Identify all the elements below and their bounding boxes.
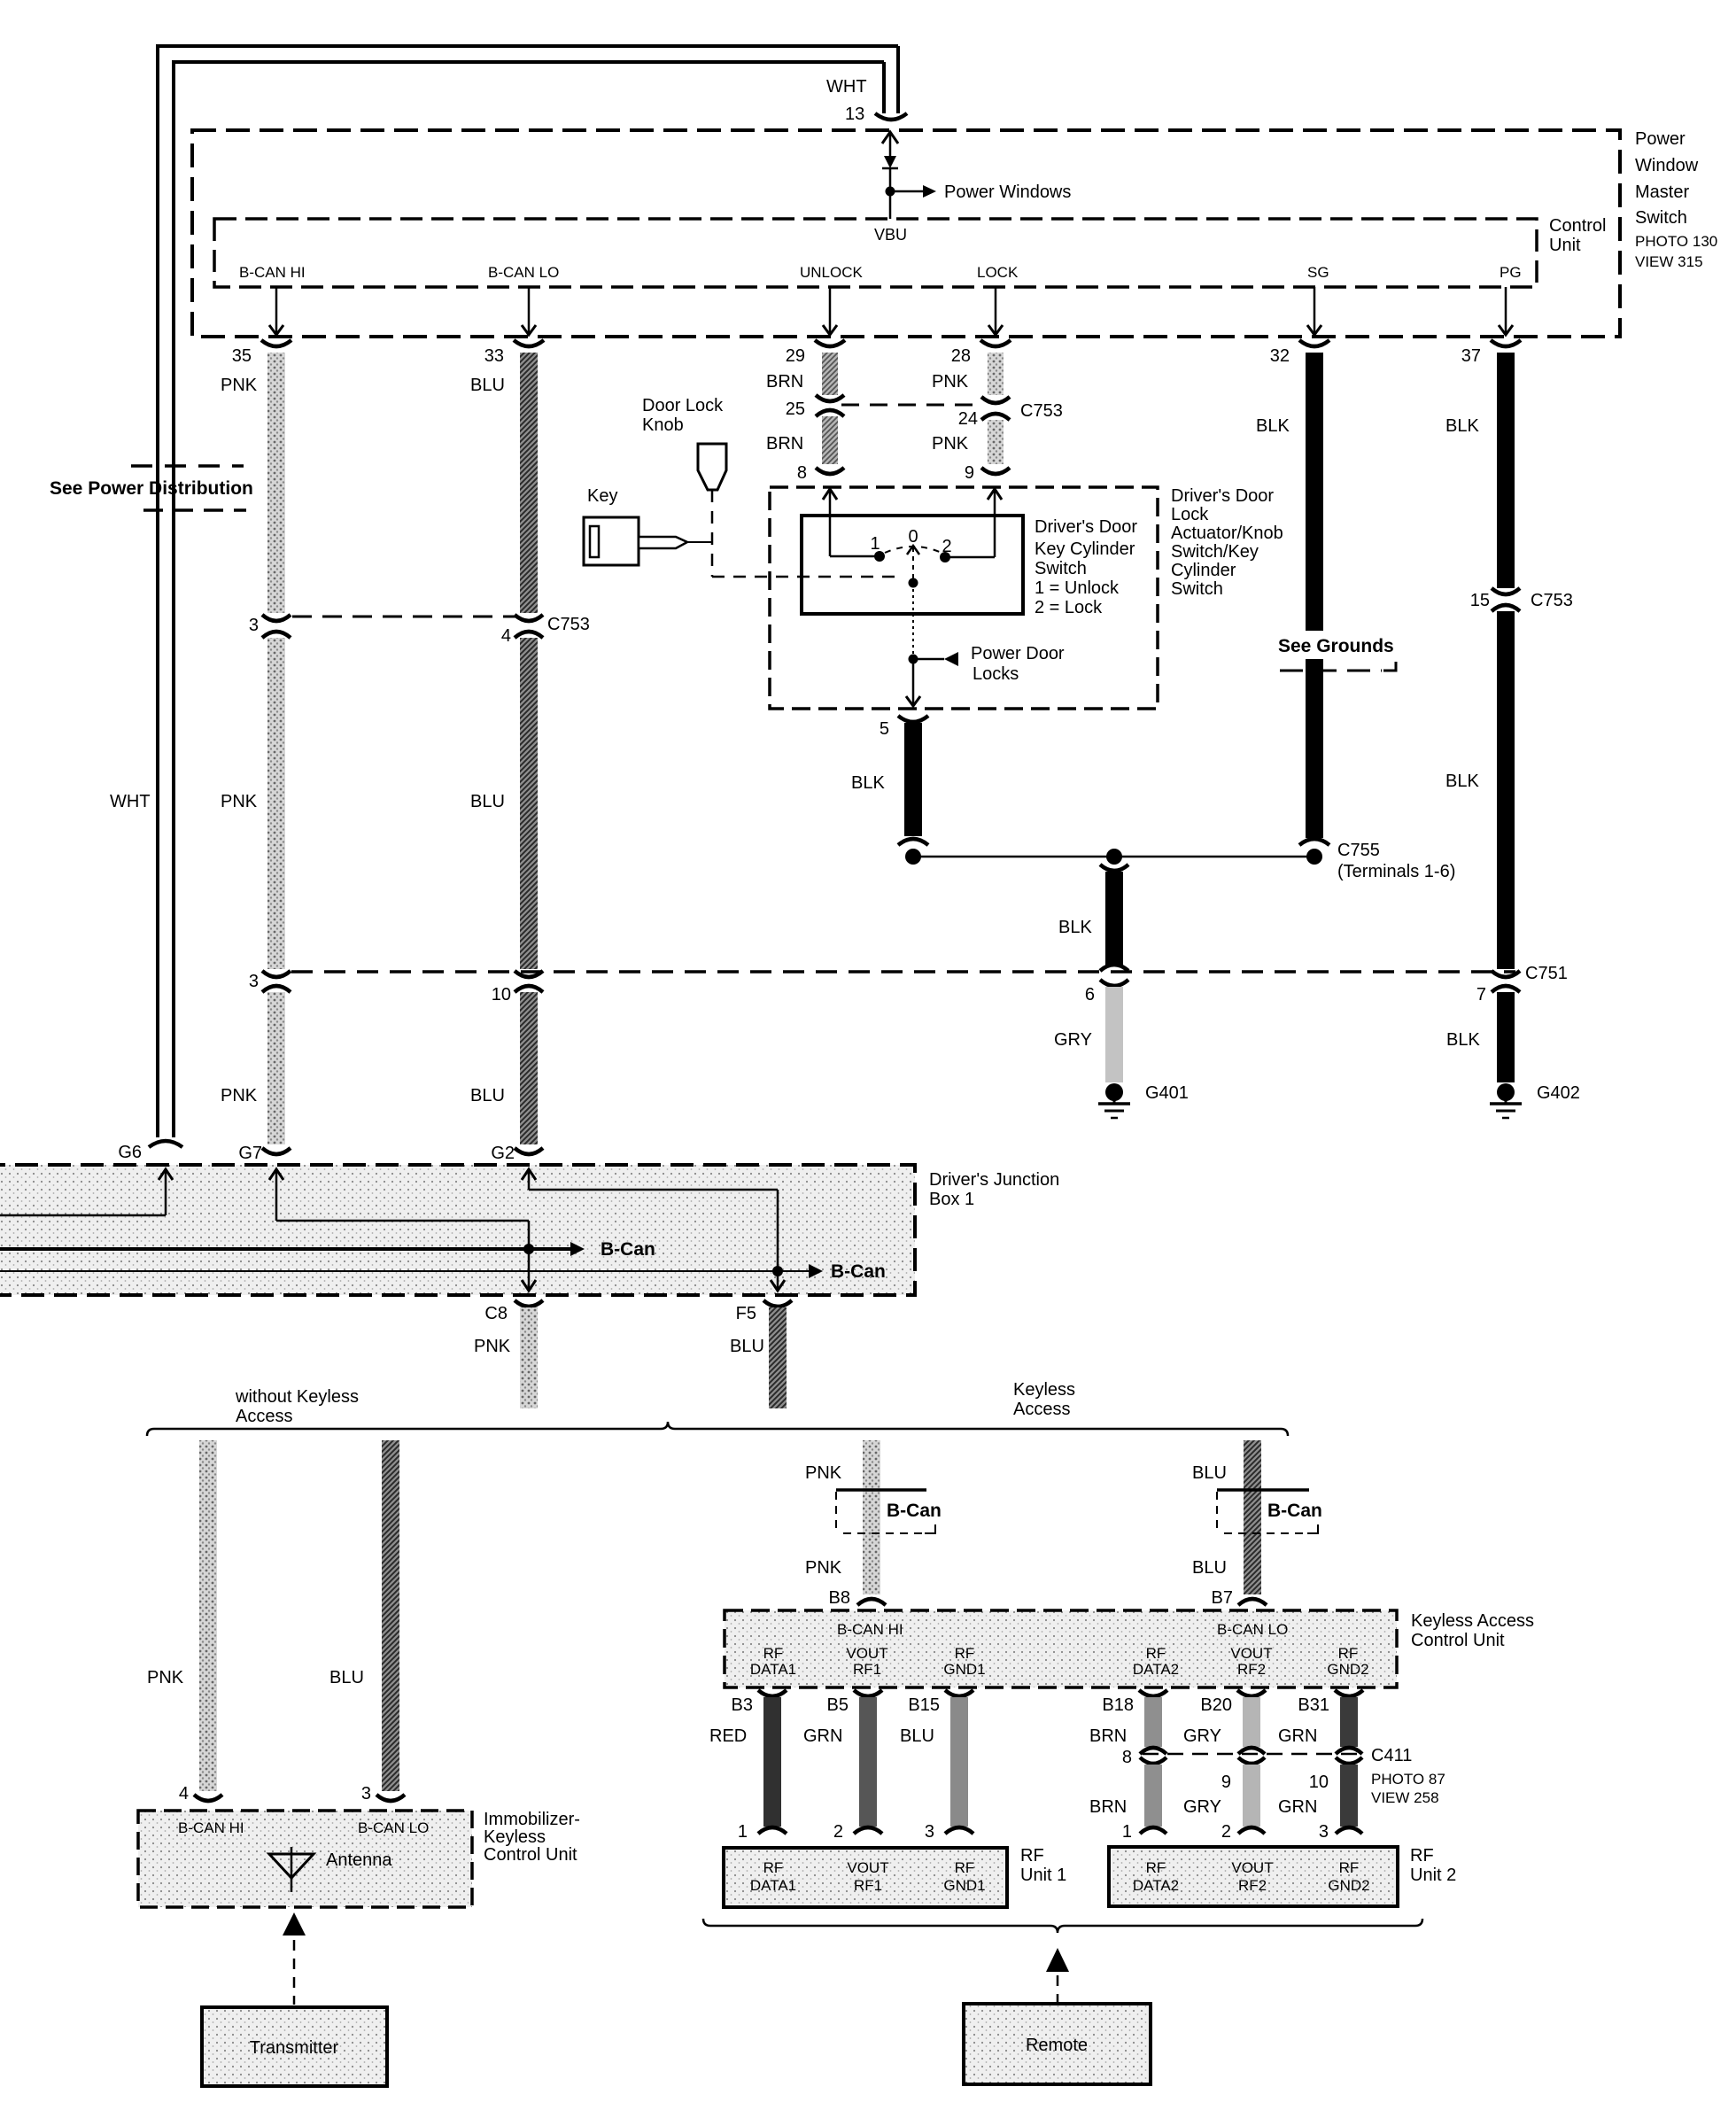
svg-text:Access: Access bbox=[1013, 1400, 1070, 1419]
svg-text:PNK: PNK bbox=[221, 1086, 258, 1105]
svg-text:C753: C753 bbox=[1020, 401, 1063, 421]
connector bracket pin 13 bbox=[875, 113, 907, 120]
svg-text:SG: SG bbox=[1307, 264, 1329, 281]
wire BLU F5 stub bbox=[769, 1307, 787, 1408]
svg-text:DATA2: DATA2 bbox=[1133, 1661, 1179, 1678]
svg-text:PNK: PNK bbox=[805, 1463, 842, 1483]
svg-text:PNK: PNK bbox=[932, 434, 969, 454]
pin B8 bbox=[829, 1588, 886, 1608]
B-Can marker on BLU bbox=[1217, 1490, 1318, 1533]
wire BLU B15 to RF unit 1 pin 3 bbox=[945, 1697, 973, 1834]
See Power Distribution page-break dashes on WHT wire bbox=[131, 466, 246, 510]
svg-text:G402: G402 bbox=[1537, 1083, 1580, 1103]
svg-text:B-CAN HI: B-CAN HI bbox=[239, 264, 306, 281]
svg-text:RF1: RF1 bbox=[853, 1661, 881, 1678]
junction dot C755 left bbox=[905, 849, 921, 865]
pin B15 bbox=[908, 1690, 973, 1715]
svg-text:RF: RF bbox=[1339, 1859, 1360, 1876]
svg-text:2: 2 bbox=[1221, 1822, 1231, 1842]
svg-text:Unit: Unit bbox=[1549, 236, 1581, 255]
svg-text:GRY: GRY bbox=[1183, 1797, 1221, 1817]
box RF Unit 1 bbox=[724, 1848, 1007, 1907]
svg-text:without Keyless: without Keyless bbox=[235, 1387, 359, 1407]
junction dot power door locks branch bbox=[909, 655, 918, 664]
svg-text:PHOTO 87: PHOTO 87 bbox=[1371, 1771, 1445, 1788]
svg-text:BLK: BLK bbox=[851, 773, 885, 793]
svg-text:9: 9 bbox=[965, 463, 974, 483]
svg-text:Antenna: Antenna bbox=[326, 1850, 392, 1870]
svg-text:Driver's Door: Driver's Door bbox=[1171, 486, 1274, 506]
wire GRN B5 to RF unit 1 pin 2 bbox=[854, 1697, 882, 1834]
pin B5 bbox=[827, 1690, 882, 1715]
wire BLU mid segment bbox=[520, 638, 538, 969]
svg-text:C753: C753 bbox=[1531, 591, 1573, 610]
ground G401 bbox=[1098, 1083, 1130, 1118]
svg-text:VOUT: VOUT bbox=[1230, 1645, 1272, 1662]
svg-text:VIEW 315: VIEW 315 bbox=[1635, 253, 1703, 270]
label RF Unit 2 bbox=[1410, 1846, 1456, 1885]
svg-text:B-CAN LO: B-CAN LO bbox=[488, 264, 559, 281]
svg-text:3: 3 bbox=[925, 1822, 934, 1842]
svg-text:VOUT: VOUT bbox=[1231, 1859, 1273, 1876]
wire PNK to immobilizer pin 4 bbox=[199, 1440, 217, 1791]
wire G6 internal path bbox=[0, 1169, 173, 1215]
svg-text:Door Lock: Door Lock bbox=[642, 396, 724, 415]
svg-text:1 = Unlock: 1 = Unlock bbox=[1035, 578, 1120, 598]
connector C753 pins 25/24 dashed line bbox=[841, 404, 983, 407]
box RF Unit 2 bbox=[1109, 1847, 1398, 1906]
svg-text:GND1: GND1 bbox=[943, 1661, 985, 1678]
svg-text:BLK: BLK bbox=[1058, 918, 1092, 937]
svg-text:Driver's Door: Driver's Door bbox=[1035, 517, 1137, 537]
svg-text:Knob: Knob bbox=[642, 415, 684, 435]
pin 8 bbox=[797, 463, 844, 483]
svg-text:G7: G7 bbox=[238, 1144, 262, 1163]
label C755 (Terminals 1-6) bbox=[1337, 841, 1455, 881]
svg-text:Keyless: Keyless bbox=[1013, 1380, 1075, 1400]
pin G6 bbox=[118, 1141, 182, 1162]
wire G2 internal path to F5 bbox=[522, 1169, 785, 1291]
section brace bbox=[147, 1422, 1288, 1436]
svg-text:G401: G401 bbox=[1145, 1083, 1189, 1103]
wire BLU lower segment bbox=[520, 992, 538, 1144]
pin F5 bbox=[736, 1300, 792, 1323]
svg-text:GRN: GRN bbox=[803, 1726, 842, 1746]
svg-text:UNLOCK: UNLOCK bbox=[800, 264, 864, 281]
svg-text:0: 0 bbox=[908, 527, 918, 547]
pin 10 connector C751 on BLU bbox=[492, 971, 543, 1005]
svg-text:RF: RF bbox=[955, 1645, 975, 1662]
wire BLK pin7 to G402 bbox=[1497, 992, 1515, 1082]
wire arm to pin 5 bbox=[906, 659, 920, 706]
svg-text:Power Windows: Power Windows bbox=[944, 182, 1071, 202]
svg-text:1: 1 bbox=[738, 1822, 748, 1842]
svg-text:Control: Control bbox=[1549, 216, 1606, 236]
svg-text:8: 8 bbox=[797, 463, 807, 483]
connector bracket BLK pin5 bottom bbox=[898, 839, 928, 845]
svg-text:Unit 2: Unit 2 bbox=[1410, 1866, 1456, 1885]
label Keyless Access bbox=[1013, 1380, 1075, 1419]
wire B-Can bus (thin) bbox=[0, 1264, 823, 1278]
transmitter signal arrow bbox=[283, 1912, 306, 2005]
svg-text:B3: B3 bbox=[732, 1695, 753, 1715]
svg-text:C751: C751 bbox=[1525, 964, 1568, 983]
svg-text:DATA1: DATA1 bbox=[750, 1877, 796, 1894]
svg-text:Remote: Remote bbox=[1026, 2036, 1088, 2055]
svg-text:Master: Master bbox=[1635, 182, 1689, 202]
switch arm pointer bbox=[907, 546, 919, 579]
svg-text:Unit 1: Unit 1 bbox=[1020, 1866, 1066, 1885]
svg-text:Lock: Lock bbox=[1171, 505, 1209, 524]
svg-text:GRY: GRY bbox=[1054, 1030, 1092, 1050]
svg-text:C8: C8 bbox=[484, 1304, 508, 1323]
wire BRN B18 upper bbox=[1140, 1697, 1166, 1754]
svg-text:RF2: RF2 bbox=[1238, 1877, 1267, 1894]
svg-text:Locks: Locks bbox=[973, 664, 1019, 684]
wire pin9 to contact 2 bbox=[945, 489, 1002, 557]
svg-text:RF: RF bbox=[955, 1859, 975, 1876]
pin B20 bbox=[1200, 1690, 1266, 1715]
svg-text:B-Can: B-Can bbox=[601, 1239, 655, 1260]
wire G7 internal path to C8 bbox=[269, 1169, 536, 1291]
svg-text:3: 3 bbox=[1319, 1822, 1329, 1842]
net VBU: arrow chain from pin 13 to control unit bbox=[882, 132, 898, 219]
door lock knob symbol bbox=[698, 444, 726, 490]
svg-text:F5: F5 bbox=[736, 1304, 756, 1323]
svg-text:2 = Lock: 2 = Lock bbox=[1035, 598, 1103, 617]
svg-text:Access: Access bbox=[236, 1407, 292, 1426]
svg-text:VOUT: VOUT bbox=[846, 1645, 887, 1662]
svg-text:Power: Power bbox=[1635, 129, 1686, 149]
connector C751 dashed line bbox=[291, 970, 1515, 974]
pin 32 bbox=[1270, 340, 1329, 366]
svg-text:RF1: RF1 bbox=[854, 1877, 882, 1894]
pin 3 connector C751 on PNK bbox=[249, 971, 291, 992]
remote signal arrow bbox=[1046, 1948, 1069, 2002]
wire BLK PG mid segment bbox=[1497, 611, 1515, 969]
junction dot arm pivot bbox=[909, 578, 918, 588]
wire BRN pin25-8 segment bbox=[822, 416, 838, 464]
svg-text:B20: B20 bbox=[1200, 1695, 1232, 1715]
pin 35 bbox=[232, 340, 291, 366]
label Immobilizer-Keyless Control Unit bbox=[484, 1810, 580, 1865]
pin B31 bbox=[1298, 1690, 1363, 1715]
pin 25 bbox=[786, 395, 844, 419]
junction dot VBU / Power Windows branch bbox=[886, 187, 895, 197]
junction dot B-Can / C8 bbox=[523, 1244, 534, 1254]
wire PNK pin35 upper segment bbox=[267, 353, 285, 613]
svg-text:Driver's Junction: Driver's Junction bbox=[929, 1170, 1059, 1190]
svg-text:BLU: BLU bbox=[1192, 1463, 1227, 1483]
svg-text:BLU: BLU bbox=[470, 792, 505, 811]
pin 15 connector C753 bbox=[1470, 588, 1520, 611]
svg-text:BLU: BLU bbox=[470, 376, 505, 395]
svg-text:BLU: BLU bbox=[1192, 1558, 1227, 1578]
wire pin8 to contact 1 bbox=[823, 489, 880, 556]
svg-text:9: 9 bbox=[1221, 1773, 1231, 1792]
svg-text:4: 4 bbox=[501, 626, 511, 646]
pin 3 bbox=[361, 1784, 405, 1804]
connector bracket SG bottom bbox=[1299, 839, 1329, 845]
svg-text:DATA1: DATA1 bbox=[750, 1661, 796, 1678]
connector C411 dashed line bbox=[1143, 1753, 1364, 1756]
svg-text:B-CAN LO: B-CAN LO bbox=[1217, 1621, 1288, 1638]
svg-text:25: 25 bbox=[786, 400, 805, 419]
wire PG pin arrow bbox=[1499, 287, 1513, 335]
svg-text:VIEW 258: VIEW 258 bbox=[1371, 1789, 1439, 1806]
wire RED B3 to RF unit 1 pin 1 bbox=[758, 1697, 787, 1834]
svg-text:BLK: BLK bbox=[1445, 416, 1479, 436]
svg-text:WHT: WHT bbox=[826, 77, 867, 97]
keyless unit lower pin names bbox=[750, 1645, 1369, 1678]
control unit pin names bbox=[239, 264, 1522, 281]
svg-text:Keyless Access: Keyless Access bbox=[1411, 1611, 1534, 1631]
svg-text:Key Cylinder: Key Cylinder bbox=[1035, 539, 1135, 559]
svg-text:BLU: BLU bbox=[470, 1086, 505, 1105]
pin 28 bbox=[951, 340, 1011, 366]
box Control Unit (inner dashed) bbox=[214, 219, 1537, 287]
svg-text:Actuator/Knob: Actuator/Knob bbox=[1171, 524, 1283, 543]
svg-text:B5: B5 bbox=[827, 1695, 849, 1715]
svg-text:13: 13 bbox=[845, 105, 864, 124]
svg-text:BLK: BLK bbox=[1445, 772, 1479, 791]
wire BLK pin37 PG upper segment bbox=[1497, 353, 1515, 588]
pin 4 bbox=[179, 1784, 222, 1804]
svg-text:3: 3 bbox=[249, 972, 259, 991]
svg-text:37: 37 bbox=[1461, 346, 1481, 366]
label See Grounds bbox=[1274, 631, 1403, 659]
svg-text:RF2: RF2 bbox=[1237, 1661, 1266, 1678]
wire PNK pin28 segment bbox=[988, 353, 1004, 395]
svg-text:33: 33 bbox=[484, 346, 504, 366]
wire PNK mid segment bbox=[267, 638, 285, 969]
key symbol bbox=[584, 517, 712, 565]
wire BRN pin29 segment bbox=[822, 353, 838, 395]
svg-text:8: 8 bbox=[1122, 1748, 1132, 1767]
svg-text:G2: G2 bbox=[491, 1144, 515, 1163]
svg-text:BRN: BRN bbox=[1089, 1797, 1127, 1817]
pin 9 bbox=[965, 463, 1010, 483]
svg-text:VOUT: VOUT bbox=[847, 1859, 888, 1876]
svg-text:WHT: WHT bbox=[110, 792, 151, 811]
svg-text:GND2: GND2 bbox=[1327, 1661, 1368, 1678]
wire BRN B18 lower to RF unit 2 pin 1 bbox=[1140, 1757, 1166, 1834]
junction dot C755 right bbox=[1306, 849, 1322, 865]
box Immobilizer-Keyless Control Unit (dashed) bbox=[138, 1811, 472, 1907]
label Driver's Lock Actuator/Knob Switch/Key Cylinder Switch bbox=[1171, 486, 1283, 599]
box Keyless Access Control Unit (dashed) bbox=[725, 1610, 1397, 1687]
pin G7 bbox=[238, 1144, 291, 1163]
keyless group underbrace bbox=[703, 1919, 1422, 1933]
pin 4 connector C753 on BLU bbox=[501, 615, 543, 646]
svg-text:1: 1 bbox=[1122, 1822, 1132, 1842]
svg-text:See Grounds: See Grounds bbox=[1278, 636, 1394, 656]
svg-text:B-CAN HI: B-CAN HI bbox=[837, 1621, 903, 1638]
svg-text:4: 4 bbox=[179, 1784, 189, 1804]
svg-text:B-Can: B-Can bbox=[831, 1261, 886, 1282]
svg-text:B15: B15 bbox=[908, 1695, 940, 1715]
svg-text:2: 2 bbox=[833, 1822, 843, 1842]
svg-text:BRN: BRN bbox=[766, 434, 803, 454]
svg-text:RED: RED bbox=[709, 1726, 747, 1746]
junction dot B-Can / F5 bbox=[772, 1266, 783, 1276]
wire GRN B31 upper bbox=[1336, 1697, 1362, 1754]
svg-text:1: 1 bbox=[870, 534, 880, 554]
wire GRY pin6 to G401 bbox=[1105, 987, 1123, 1082]
svg-text:GRN: GRN bbox=[1278, 1797, 1317, 1817]
wire GRY B20 upper bbox=[1238, 1697, 1265, 1754]
svg-text:BLK: BLK bbox=[1256, 416, 1290, 436]
svg-text:Immobilizer-: Immobilizer- bbox=[484, 1810, 580, 1829]
svg-text:Cylinder: Cylinder bbox=[1171, 561, 1236, 580]
label Door Lock Knob bbox=[642, 396, 724, 435]
svg-text:Switch/Key: Switch/Key bbox=[1171, 542, 1259, 562]
junction dot C755 mid bbox=[1106, 849, 1122, 865]
svg-text:32: 32 bbox=[1270, 346, 1290, 366]
svg-text:10: 10 bbox=[492, 985, 511, 1005]
svg-text:BLU: BLU bbox=[329, 1668, 364, 1687]
svg-text:PNK: PNK bbox=[805, 1558, 842, 1578]
svg-text:PNK: PNK bbox=[474, 1337, 511, 1356]
box Power Window Master Switch (outer dashed) bbox=[192, 130, 1620, 337]
svg-text:BLU: BLU bbox=[730, 1337, 764, 1356]
RF unit 2 pin names bbox=[1133, 1859, 1370, 1894]
wire PNK pin24-9 segment bbox=[988, 420, 1004, 464]
label Driver's Junction Box 1 bbox=[929, 1170, 1059, 1209]
B-Can marker on PNK bbox=[836, 1490, 935, 1533]
wire SG pin arrow bbox=[1307, 287, 1321, 335]
svg-text:24: 24 bbox=[958, 409, 978, 429]
antenna symbol bbox=[269, 1847, 314, 1892]
label Power Door Locks bbox=[971, 644, 1065, 684]
wire B-CAN LO pin arrow bbox=[522, 287, 536, 335]
wire PNK lower segment bbox=[267, 992, 285, 1144]
wire C755 bus line bbox=[913, 856, 1314, 858]
svg-text:RF: RF bbox=[763, 1645, 784, 1662]
svg-text:B-Can: B-Can bbox=[1267, 1501, 1322, 1521]
wire BLK pin32 SG segment bbox=[1306, 353, 1323, 838]
wire GRY B20 lower to RF unit 2 pin 2 bbox=[1238, 1757, 1265, 1834]
label Control Unit bbox=[1549, 216, 1606, 255]
svg-text:VBU: VBU bbox=[874, 226, 907, 244]
wire PNK C8 stub bbox=[520, 1307, 538, 1408]
connector C753 pins 3/4 dashed line bbox=[292, 616, 517, 618]
svg-text:(Terminals 1-6): (Terminals 1-6) bbox=[1337, 862, 1455, 881]
svg-text:3: 3 bbox=[249, 616, 259, 635]
svg-text:35: 35 bbox=[232, 346, 252, 366]
svg-text:RF: RF bbox=[763, 1859, 784, 1876]
svg-text:Transmitter: Transmitter bbox=[250, 2038, 339, 2058]
label Keyless Access Control Unit bbox=[1411, 1611, 1534, 1650]
svg-text:Window: Window bbox=[1635, 156, 1699, 175]
svg-text:BLU: BLU bbox=[900, 1726, 934, 1746]
svg-text:PHOTO 130: PHOTO 130 bbox=[1635, 233, 1717, 250]
svg-text:B18: B18 bbox=[1102, 1695, 1134, 1715]
pin C8 bbox=[484, 1300, 543, 1323]
svg-text:DATA2: DATA2 bbox=[1133, 1877, 1179, 1894]
pin 29 bbox=[786, 340, 845, 366]
svg-text:RF: RF bbox=[1338, 1645, 1359, 1662]
label Driver's Door Key Cylinder Switch legend bbox=[1035, 517, 1137, 617]
pin 33 bbox=[484, 340, 544, 366]
svg-text:Control Unit: Control Unit bbox=[484, 1845, 577, 1865]
svg-text:C411: C411 bbox=[1371, 1746, 1412, 1765]
box Driver's Junction Box 1 (dashed) bbox=[0, 1165, 915, 1295]
svg-text:28: 28 bbox=[951, 346, 971, 366]
svg-text:C755: C755 bbox=[1337, 841, 1380, 860]
See Grounds page-break dashes bbox=[1280, 662, 1396, 671]
wire branch to Power Door Locks bbox=[913, 652, 958, 666]
svg-text:GRY: GRY bbox=[1183, 1726, 1221, 1746]
svg-text:B-CAN HI: B-CAN HI bbox=[178, 1819, 244, 1836]
svg-text:PNK: PNK bbox=[147, 1668, 184, 1687]
svg-text:PNK: PNK bbox=[221, 792, 258, 811]
svg-text:B31: B31 bbox=[1298, 1695, 1329, 1715]
pin B7 bbox=[1212, 1588, 1267, 1608]
svg-text:RF: RF bbox=[1020, 1846, 1044, 1866]
label RF Unit 1 bbox=[1020, 1846, 1066, 1885]
svg-text:LOCK: LOCK bbox=[977, 264, 1019, 281]
svg-text:6: 6 bbox=[1085, 985, 1095, 1005]
wire WHT net: double-line from G6 up left side, across top, down to pin 13 bbox=[156, 46, 898, 1137]
svg-text:29: 29 bbox=[786, 346, 805, 366]
svg-text:PNK: PNK bbox=[221, 376, 258, 395]
wire B-Can bus (thick) bbox=[0, 1242, 585, 1256]
svg-text:GRN: GRN bbox=[1278, 1726, 1317, 1746]
svg-text:B-CAN LO: B-CAN LO bbox=[358, 1819, 429, 1836]
label without Keyless Access bbox=[235, 1387, 359, 1426]
svg-text:RF: RF bbox=[1146, 1645, 1166, 1662]
svg-text:10: 10 bbox=[1309, 1773, 1329, 1792]
svg-text:PG: PG bbox=[1500, 264, 1522, 281]
wire BLK C755 to C751 bbox=[1100, 865, 1128, 971]
wire UNLOCK pin arrow bbox=[823, 287, 837, 335]
label C411 PHOTO 87 VIEW 258 bbox=[1371, 1746, 1445, 1806]
svg-text:3: 3 bbox=[361, 1784, 371, 1804]
pin 5 bbox=[880, 716, 928, 739]
wire branch to Power Windows bbox=[890, 185, 936, 198]
svg-text:Switch: Switch bbox=[1635, 208, 1687, 228]
svg-text:BLK: BLK bbox=[1446, 1030, 1480, 1050]
pin 37 bbox=[1461, 340, 1521, 366]
wire arm pivot to lower junction bbox=[912, 583, 914, 659]
ground G402 bbox=[1490, 1083, 1522, 1118]
box Driver's Door Lock Actuator (dashed) bbox=[770, 487, 1158, 709]
wire BLK pin5 segment bbox=[904, 723, 922, 836]
RF unit 1 pin names bbox=[750, 1859, 986, 1894]
wire BLU pin33 upper segment bbox=[520, 353, 538, 613]
switch arm arc (dashed) bbox=[885, 547, 942, 553]
wire LOCK pin arrow bbox=[988, 287, 1003, 335]
svg-text:Box 1: Box 1 bbox=[929, 1190, 974, 1209]
pin 24 bbox=[958, 397, 1010, 429]
svg-text:G6: G6 bbox=[118, 1143, 142, 1162]
pin 3 connector C753 on PNK bbox=[249, 615, 291, 638]
box Transmitter bbox=[202, 2007, 387, 2086]
pin B18 bbox=[1102, 1690, 1167, 1715]
svg-text:Power Door: Power Door bbox=[971, 644, 1065, 663]
svg-text:B8: B8 bbox=[829, 1588, 850, 1608]
pin G2 bbox=[491, 1144, 543, 1163]
svg-text:15: 15 bbox=[1470, 591, 1490, 610]
svg-text:BRN: BRN bbox=[766, 372, 803, 392]
svg-text:GND2: GND2 bbox=[1328, 1877, 1369, 1894]
pin B3 bbox=[732, 1690, 787, 1715]
svg-text:Control Unit: Control Unit bbox=[1411, 1631, 1505, 1650]
wire PNK B-CAN HI to B8 bbox=[863, 1440, 880, 1594]
svg-text:See Power Distribution: See Power Distribution bbox=[50, 478, 253, 499]
svg-text:Keyless: Keyless bbox=[484, 1827, 546, 1847]
